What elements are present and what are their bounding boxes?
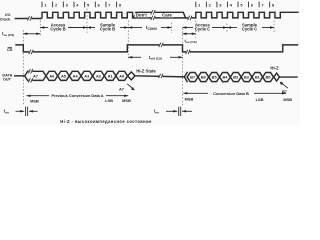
svg-text:B2: B2 — [244, 75, 250, 80]
svg-text:MSB: MSB — [122, 98, 131, 103]
svg-text:Hi-Z State: Hi-Z State — [136, 69, 156, 74]
data cell A3 — [81, 71, 93, 80]
dashed ref line clock B8 fall / CS rise — [127, 21, 129, 60]
dashed ref line clock B1 rise — [39, 21, 41, 38]
data cell B4 — [220, 73, 231, 82]
data cell B6 — [198, 73, 209, 82]
svg-text:A7: A7 — [119, 86, 124, 91]
svg-text:7: 7 — [108, 3, 110, 8]
data cell A1 — [104, 71, 116, 80]
svg-text:Hi-Z - высокоимпедансное состо: Hi-Z - высокоимпедансное состояние — [60, 119, 152, 124]
break on CS low segment — [29, 50, 33, 54]
dimension Conversion Data B — [183, 92, 187, 95]
data cell A4 — [69, 71, 81, 80]
label Care — [161, 13, 174, 17]
svg-text:A3: A3 — [84, 73, 90, 78]
svg-text:B7: B7 — [282, 89, 287, 94]
svg-text:Clock: Clock — [0, 17, 11, 22]
break on CS low after second fall — [186, 50, 190, 54]
svg-text:LSB: LSB — [105, 98, 113, 103]
data bus closing diamond B — [274, 73, 280, 81]
dimension Access Cycle B — [40, 27, 48, 29]
svg-text:Previous Conversion Data A: Previous Conversion Data A — [51, 93, 103, 98]
dimension Access Cycle C — [183, 27, 194, 29]
data cell B2 — [241, 73, 252, 82]
label Don't — [135, 13, 149, 17]
svg-text:A6: A6 — [49, 73, 55, 78]
break on Hi-Z line — [159, 74, 163, 78]
data cell A5 — [58, 71, 70, 80]
clock numbering ticks 1-8 burst C — [195, 2, 197, 8]
svg-text:MSB: MSB — [185, 96, 194, 101]
don't care region rails — [134, 12, 186, 18]
svg-text:Conversion Data B: Conversion Data B — [213, 91, 249, 96]
svg-text:Cycle B: Cycle B — [100, 27, 115, 32]
svg-text:LSB: LSB — [256, 97, 264, 102]
dimension Sample Cycle B — [87, 26, 91, 29]
data cell A0 — [116, 71, 128, 80]
svg-text:MSB: MSB — [30, 98, 39, 103]
dashed ref line clock C8 fall — [273, 21, 275, 34]
dashed ref line clock C1 rise — [195, 21, 197, 39]
wire CS lead high and fall — [16, 45, 127, 52]
wire DATA OUT lead-in — [15, 75, 25, 77]
svg-text:B5: B5 — [212, 75, 218, 80]
svg-text:OUT: OUT — [3, 77, 12, 81]
dashed ref line end of conversion — [171, 23, 173, 34]
svg-text:A0: A0 — [119, 73, 124, 78]
data bus opening B — [184, 73, 187, 82]
break on CS high pulse — [159, 43, 163, 47]
svg-text:B6: B6 — [201, 75, 207, 80]
svg-text:A1: A1 — [108, 73, 114, 78]
svg-text:B7: B7 — [190, 75, 195, 80]
wire Hi-Z line right end — [279, 76, 297, 78]
wire CS high pulse — [127, 45, 297, 52]
dimension Sample Cycle C — [227, 26, 231, 29]
wire I/O Clock burst B pulses 1-8 — [41, 12, 134, 18]
svg-text:Don't: Don't — [136, 13, 148, 18]
dimension tCONV — [128, 26, 132, 29]
break on clock low before burst C — [188, 16, 192, 20]
dimension tsu(CS) second — [183, 33, 196, 35]
dashed ref line CS fall 1 — [22, 30, 24, 106]
svg-text:A7: A7 — [33, 73, 38, 78]
clock numbering ticks 1-8 burst B — [41, 2, 43, 8]
svg-text:Care: Care — [162, 13, 172, 18]
break on I/O Clock lead-in — [28, 16, 32, 20]
svg-text:Cycle C: Cycle C — [195, 27, 210, 32]
break on A7 cell rails — [29, 69, 33, 73]
break on don't care rails — [151, 10, 155, 14]
svg-text:B3: B3 — [233, 75, 239, 80]
data cell A6 — [46, 71, 58, 80]
data cell B5 — [209, 73, 220, 82]
svg-text:Hi-Z: Hi-Z — [270, 65, 279, 70]
svg-text:B4: B4 — [222, 75, 228, 80]
wire Hi-Z state line — [135, 76, 184, 77]
dashed ref line access/sample C boundary — [226, 24, 228, 34]
dimension Previous Conversion Data A — [27, 94, 31, 97]
data cell B3 — [230, 73, 241, 82]
svg-text:MSB: MSB — [283, 97, 292, 102]
wire I/O Clock lead-in low — [15, 18, 40, 20]
svg-text:B1: B1 — [255, 75, 261, 80]
svg-text:Cycle C: Cycle C — [242, 27, 257, 32]
dashed ref line CS fall 2 — [182, 28, 184, 106]
svg-text:7: 7 — [261, 3, 263, 8]
svg-text:Cycle B: Cycle B — [50, 27, 65, 32]
data cell A2 — [93, 71, 105, 80]
data cell A7 (previous conversion MSB) — [25, 71, 46, 80]
svg-text:B0: B0 — [266, 75, 271, 80]
svg-text:A2: A2 — [96, 73, 102, 78]
svg-text:A5: A5 — [61, 73, 67, 78]
data bus closing diamond A — [128, 72, 135, 80]
data cell B1 — [252, 73, 263, 82]
data cell B7 — [187, 73, 198, 82]
data cell B0 — [263, 73, 274, 82]
svg-text:A4: A4 — [73, 73, 79, 78]
dashed ref line access/sample B boundary — [86, 9, 88, 34]
wire I/O Clock burst C pulses 1-8 and trailing high — [196, 12, 298, 18]
dimension twH(CS) — [128, 56, 132, 59]
